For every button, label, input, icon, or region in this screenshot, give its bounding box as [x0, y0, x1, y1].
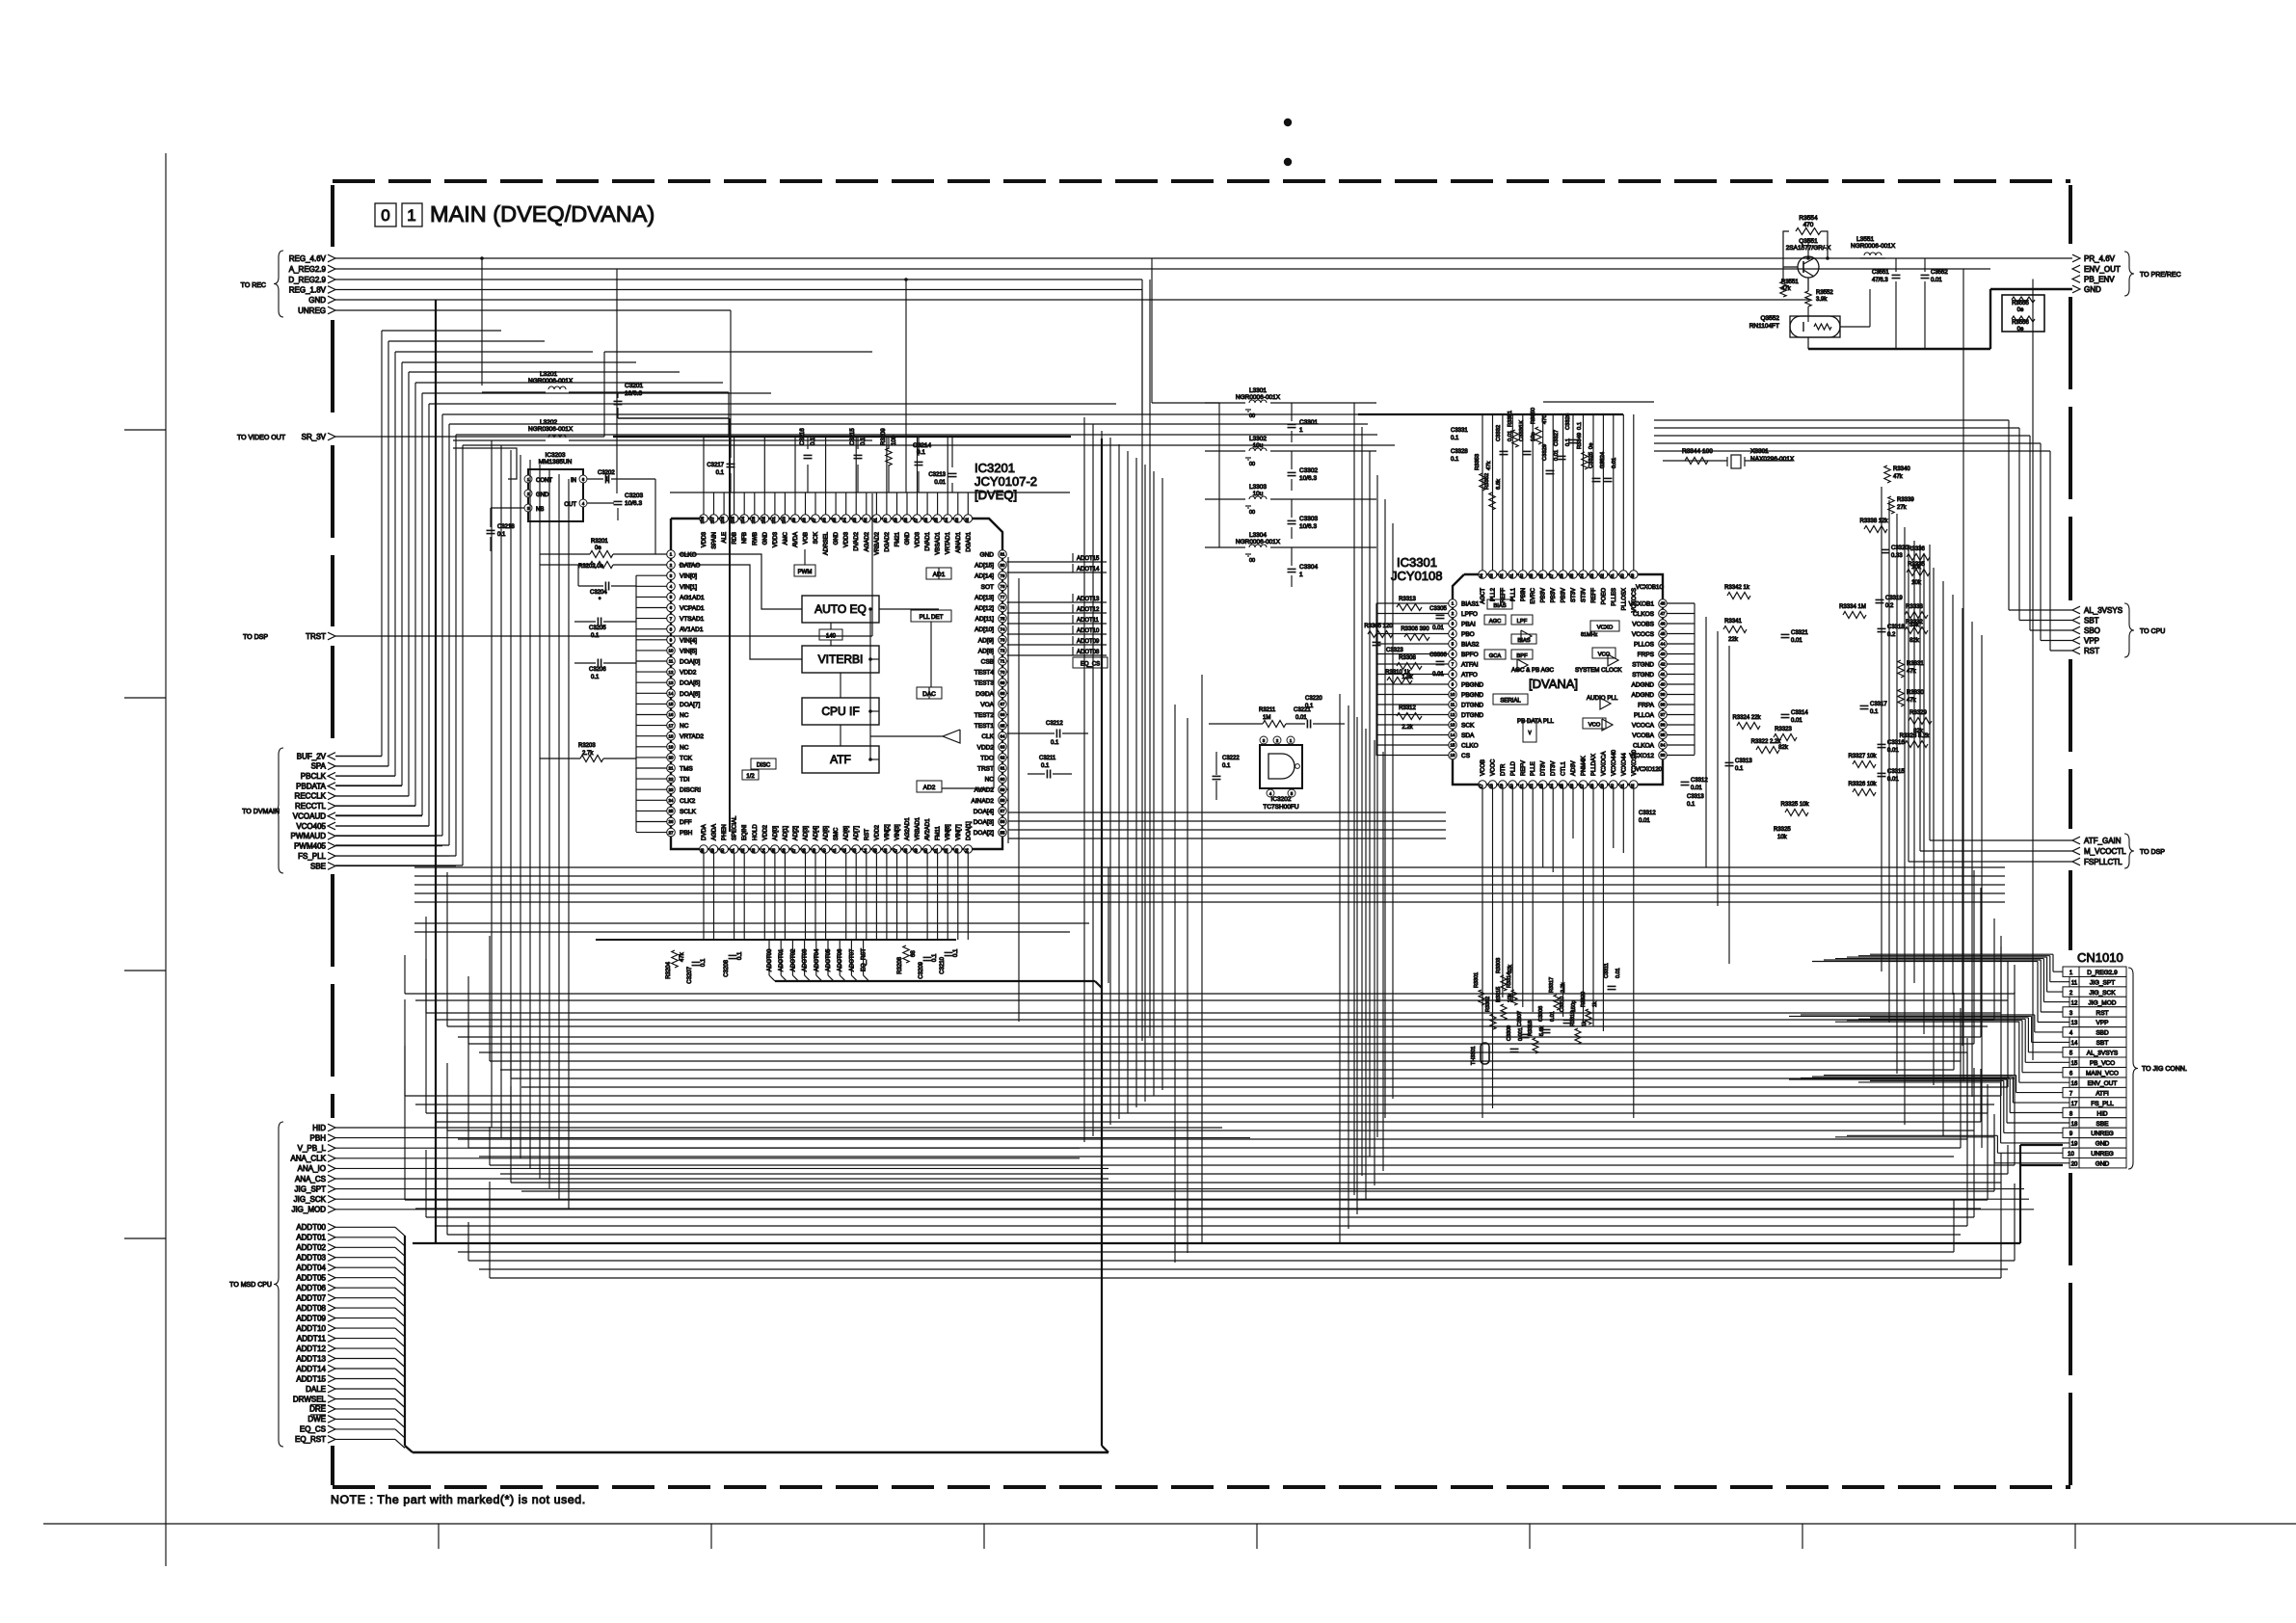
- svg-text:TO PRE/REC: TO PRE/REC: [2140, 272, 2181, 279]
- svg-text:23: 23: [669, 787, 674, 792]
- svg-text:10k: 10k: [1777, 835, 1788, 840]
- svg-text:11: 11: [1451, 703, 1455, 707]
- svg-text:2.2k: 2.2k: [1402, 725, 1413, 731]
- svg-text:62: 62: [1001, 756, 1005, 760]
- svg-text:FS_PLL: FS_PLL: [298, 852, 326, 861]
- svg-text:ADDT13: ADDT13: [296, 1354, 326, 1363]
- svg-text:85: 85: [934, 518, 939, 522]
- svg-text:SBT: SBT: [2084, 616, 2099, 625]
- svg-text:DOA[2]: DOA[2]: [974, 830, 995, 837]
- svg-text:58: 58: [1001, 798, 1005, 803]
- svg-text:36: 36: [1661, 723, 1666, 728]
- svg-text:BUF_2V: BUF_2V: [297, 752, 327, 760]
- svg-text:ADOT04: ADOT04: [814, 948, 820, 971]
- svg-text:VRBAD1: VRBAD1: [916, 816, 921, 840]
- svg-text:00: 00: [1249, 462, 1255, 467]
- svg-text:C3309: C3309: [1507, 1025, 1512, 1041]
- svg-text:0e: 0e: [1589, 443, 1594, 449]
- svg-text:84: 84: [944, 518, 948, 522]
- svg-text:REFV: REFV: [1521, 760, 1527, 776]
- svg-text:C3315: C3315: [1887, 769, 1905, 775]
- svg-text:46: 46: [883, 848, 888, 853]
- svg-text:100: 100: [781, 516, 786, 523]
- svg-text:1: 1: [1299, 427, 1303, 434]
- svg-text:16: 16: [669, 712, 674, 717]
- svg-text:21: 21: [669, 766, 674, 771]
- svg-text:AG1AD1: AG1AD1: [680, 595, 705, 601]
- svg-text:75: 75: [1001, 616, 1005, 621]
- svg-text:R3352: R3352: [1484, 473, 1490, 490]
- svg-text:JIG_SPT: JIG_SPT: [2090, 980, 2115, 987]
- svg-text:VIN[3]: VIN[3]: [895, 824, 901, 840]
- svg-text:R3339: R3339: [1897, 497, 1914, 503]
- svg-text:DVAD2: DVAD2: [854, 531, 860, 550]
- svg-text:10/6.3: 10/6.3: [625, 500, 642, 507]
- svg-text:PWMAUD: PWMAUD: [291, 832, 327, 840]
- svg-text:39: 39: [812, 848, 816, 853]
- svg-text:BIAS: BIAS: [1493, 603, 1506, 609]
- svg-text:R3317: R3317: [1549, 977, 1555, 993]
- svg-text:TH3301: TH3301: [1471, 1046, 1477, 1065]
- svg-text:23: 23: [1539, 784, 1544, 788]
- svg-text:0e: 0e: [2017, 327, 2024, 333]
- svg-text:32: 32: [1630, 784, 1635, 788]
- svg-text:27: 27: [669, 830, 674, 835]
- svg-text:54: 54: [964, 848, 969, 853]
- svg-text:NGR0006-001X: NGR0006-001X: [528, 378, 574, 385]
- svg-text:C3330: C3330: [1519, 425, 1525, 441]
- svg-text:SPECIAL: SPECIAL: [733, 815, 738, 840]
- svg-text:C3307: C3307: [1517, 1011, 1523, 1026]
- svg-text:0.1: 0.1: [1451, 457, 1459, 463]
- svg-text:92: 92: [863, 518, 868, 522]
- svg-text:SPAIN: SPAIN: [712, 532, 718, 549]
- svg-text:0.1: 0.1: [1687, 802, 1695, 808]
- svg-text:VCXO440: VCXO440: [1612, 749, 1617, 776]
- svg-text:RST: RST: [865, 829, 870, 840]
- svg-text:R3351: R3351: [1508, 411, 1513, 427]
- svg-text:PB3V: PB3V: [1562, 588, 1567, 602]
- svg-text:TEST1: TEST1: [974, 723, 995, 730]
- svg-text:20: 20: [1508, 784, 1513, 788]
- svg-text:UNREG: UNREG: [298, 306, 326, 315]
- svg-text:ENV_OUT: ENV_OUT: [2084, 265, 2121, 274]
- svg-text:FRPS: FRPS: [1638, 652, 1655, 658]
- svg-text:0.1: 0.1: [1577, 422, 1583, 430]
- svg-text:C3208: C3208: [724, 959, 730, 976]
- svg-text:15: 15: [1451, 743, 1455, 748]
- svg-text:VOB: VOB: [804, 532, 810, 545]
- svg-text:PBCLK: PBCLK: [301, 772, 327, 781]
- svg-text:35: 35: [771, 848, 776, 853]
- svg-text:RST: RST: [2084, 647, 2099, 655]
- svg-text:AD[1]: AD[1]: [783, 826, 788, 840]
- svg-text:TO VIDEO OUT: TO VIDEO OUT: [237, 435, 286, 441]
- svg-text:ANA_CS: ANA_CS: [295, 1175, 326, 1184]
- svg-text:79: 79: [1001, 573, 1005, 578]
- svg-text:67: 67: [1001, 702, 1005, 706]
- svg-text:VCXO44: VCXO44: [1621, 753, 1627, 776]
- svg-text:2.2k: 2.2k: [1561, 982, 1566, 993]
- svg-text:L3301: L3301: [1249, 387, 1267, 394]
- svg-text:VDD2: VDD2: [874, 824, 880, 840]
- svg-text:DTGND: DTGND: [1461, 703, 1483, 709]
- svg-text:C3218: C3218: [497, 524, 515, 530]
- svg-text:R3336: R3336: [1908, 546, 1925, 552]
- svg-text:SCK: SCK: [1461, 723, 1475, 730]
- svg-text:C3317: C3317: [1870, 702, 1887, 707]
- svg-text:47k: 47k: [1486, 462, 1492, 470]
- svg-text:DVAD1: DVAD1: [925, 531, 931, 550]
- svg-text:PBIN: PBIN: [1521, 588, 1527, 601]
- svg-text:ADDT00: ADDT00: [296, 1223, 326, 1232]
- svg-text:TEST2: TEST2: [974, 712, 995, 719]
- svg-text:SMC: SMC: [834, 827, 840, 840]
- svg-text:33: 33: [751, 848, 756, 853]
- svg-text:JCY0107-2: JCY0107-2: [974, 474, 1037, 489]
- svg-text:0.01: 0.01: [934, 480, 946, 486]
- svg-text:ATF: ATF: [830, 753, 851, 766]
- svg-text:C3552: C3552: [1931, 270, 1948, 276]
- svg-text:87: 87: [914, 518, 919, 522]
- svg-text:TEST3: TEST3: [974, 680, 995, 687]
- svg-text:R3320: R3320: [1581, 992, 1587, 1007]
- svg-text:C3331: C3331: [1451, 428, 1468, 434]
- svg-text:Q3552: Q3552: [1760, 315, 1779, 322]
- svg-text:R3334 1M: R3334 1M: [1839, 604, 1866, 610]
- svg-text:63: 63: [1001, 745, 1005, 750]
- svg-text:TO REC: TO REC: [241, 282, 266, 289]
- svg-text:R3323: R3323: [1775, 727, 1792, 732]
- svg-text:41: 41: [1661, 672, 1666, 677]
- svg-text:59: 59: [1001, 787, 1005, 792]
- svg-text:60: 60: [1001, 777, 1005, 782]
- svg-text:PBGND: PBGND: [1461, 682, 1483, 689]
- svg-text:JCY0108: JCY0108: [1391, 569, 1442, 583]
- svg-text:FRPA: FRPA: [1638, 703, 1655, 709]
- svg-text:ADDT08: ADDT08: [296, 1304, 326, 1313]
- svg-text:ADOT00: ADOT00: [767, 948, 773, 971]
- svg-text:R3314: R3314: [1507, 972, 1512, 988]
- svg-text:12: 12: [669, 670, 674, 675]
- svg-text:ATFAI: ATFAI: [1461, 662, 1479, 669]
- svg-text:GND: GND: [536, 492, 549, 498]
- svg-text:100: 100: [892, 435, 897, 445]
- svg-text:CN1010: CN1010: [2077, 950, 2123, 965]
- svg-text:28: 28: [700, 848, 705, 853]
- svg-text:DOA[7]: DOA[7]: [680, 702, 701, 708]
- svg-text:C3215: C3215: [850, 428, 856, 445]
- svg-text:VCO405: VCO405: [296, 822, 326, 831]
- svg-text:45: 45: [1661, 631, 1666, 636]
- svg-text:0.01: 0.01: [1550, 1011, 1556, 1022]
- svg-text:PNM4K: PNM4K: [1582, 756, 1588, 776]
- svg-text:29: 29: [710, 848, 715, 853]
- svg-text:56: 56: [1001, 819, 1005, 824]
- svg-text:R3325: R3325: [1774, 827, 1791, 833]
- svg-text:C3326: C3326: [1565, 413, 1571, 430]
- svg-text:EVRC: EVRC: [1531, 587, 1536, 603]
- svg-text:NC: NC: [680, 723, 689, 730]
- svg-text:MAIN (DVEQ/DVANA): MAIN (DVEQ/DVANA): [430, 201, 654, 226]
- svg-text:SBO: SBO: [2084, 626, 2100, 635]
- svg-text:C3211: C3211: [1039, 756, 1056, 761]
- svg-text:ADDT15: ADDT15: [296, 1374, 326, 1383]
- svg-text:C3312: C3312: [1639, 811, 1656, 816]
- svg-text:PLLDAX: PLLDAX: [1591, 754, 1597, 776]
- svg-text:C3312: C3312: [1691, 778, 1708, 784]
- svg-text:C3205: C3205: [589, 625, 606, 631]
- svg-text:18: 18: [1489, 784, 1494, 788]
- svg-text:R3310 1k: R3310 1k: [1385, 670, 1411, 676]
- svg-text:56: 56: [1560, 573, 1564, 578]
- svg-text:GND: GND: [762, 531, 768, 545]
- svg-text:ADOT09: ADOT09: [1077, 639, 1100, 645]
- svg-text:C3220: C3220: [1305, 696, 1322, 702]
- svg-text:ADOT08: ADOT08: [1077, 650, 1100, 655]
- svg-text:47: 47: [894, 848, 898, 853]
- svg-text:78: 78: [1001, 584, 1005, 589]
- svg-text:00: 00: [1249, 558, 1255, 564]
- svg-text:ADOT06: ADOT06: [838, 948, 843, 971]
- svg-text:18: 18: [669, 733, 674, 738]
- svg-text:DRE: DRE: [309, 1405, 326, 1414]
- svg-text:3.9k: 3.9k: [1816, 297, 1828, 303]
- svg-text:0.01: 0.01: [1691, 785, 1702, 791]
- svg-text:EQ_CS: EQ_CS: [1081, 662, 1100, 668]
- svg-text:34: 34: [761, 848, 765, 853]
- svg-text:AD[0]: AD[0]: [773, 826, 779, 840]
- svg-text:L3302: L3302: [1249, 436, 1267, 442]
- svg-text:DGAD1: DGAD1: [966, 531, 972, 551]
- svg-text:AMC: AMC: [783, 531, 788, 545]
- svg-text:AV2AD1: AV2AD1: [925, 818, 931, 840]
- svg-text:83: 83: [954, 518, 959, 522]
- svg-text:SBE: SBE: [310, 862, 326, 870]
- svg-text:60: 60: [1519, 573, 1524, 578]
- svg-text:86: 86: [923, 518, 928, 522]
- svg-text:C3324: C3324: [1600, 451, 1606, 468]
- svg-text:TO DVMAIN: TO DVMAIN: [242, 809, 280, 815]
- svg-text:C3304: C3304: [1299, 564, 1319, 571]
- svg-text:24: 24: [669, 798, 674, 803]
- svg-text:AGDA: AGDA: [712, 824, 718, 840]
- svg-text:68: 68: [1001, 691, 1005, 696]
- svg-text:MM1385UN: MM1385UN: [539, 459, 573, 466]
- svg-text:40: 40: [1661, 682, 1666, 687]
- svg-text:C3313: C3313: [1735, 758, 1752, 764]
- svg-text:29: 29: [1599, 784, 1604, 788]
- svg-text:95: 95: [832, 518, 837, 522]
- svg-text:R3201: R3201: [591, 539, 608, 545]
- svg-text:LPF: LPF: [1517, 619, 1528, 625]
- svg-text:C3209: C3209: [919, 961, 924, 978]
- svg-text:PB3V: PB3V: [1551, 588, 1557, 602]
- svg-text:GND: GND: [834, 531, 840, 545]
- svg-text:GND: GND: [308, 296, 326, 305]
- svg-text:DT3V: DT3V: [1551, 761, 1557, 776]
- svg-text:IC3301: IC3301: [1397, 555, 1437, 570]
- svg-text:CLKO: CLKO: [680, 552, 697, 559]
- svg-text:VDD2: VDD2: [762, 824, 768, 840]
- svg-text:REG_4.6V: REG_4.6V: [289, 254, 327, 263]
- svg-text:SR_3V: SR_3V: [302, 433, 327, 441]
- svg-text:D_REG2.9: D_REG2.9: [288, 276, 326, 284]
- svg-text:LPFO: LPFO: [1461, 611, 1478, 618]
- svg-text:27: 27: [1580, 784, 1585, 788]
- svg-text:CLK: CLK: [981, 733, 994, 740]
- svg-text:13: 13: [1451, 723, 1455, 728]
- svg-text:42: 42: [842, 848, 847, 853]
- svg-text:AL_3VSYS: AL_3VSYS: [2084, 606, 2122, 615]
- svg-text:ENV_OUT: ENV_OUT: [2088, 1080, 2118, 1087]
- svg-text:SOT: SOT: [981, 584, 994, 591]
- svg-text:M_VCOCTL: M_VCOCTL: [2084, 847, 2126, 856]
- svg-text:53: 53: [954, 848, 959, 853]
- svg-text:14: 14: [669, 691, 674, 696]
- svg-text:RDB: RDB: [733, 532, 738, 545]
- svg-text:0.1: 0.1: [591, 675, 600, 680]
- svg-text:GCA: GCA: [1489, 653, 1502, 659]
- svg-text:21: 21: [1519, 784, 1524, 788]
- svg-text:R3340: R3340: [1893, 466, 1910, 472]
- svg-text:TRST: TRST: [977, 766, 994, 773]
- svg-text:SCLK: SCLK: [680, 809, 697, 815]
- svg-text:PR_4.6V: PR_4.6V: [2084, 254, 2116, 263]
- svg-text:47k: 47k: [1893, 474, 1904, 480]
- svg-text:ATF_GAIN: ATF_GAIN: [2084, 837, 2122, 845]
- svg-text:VIN[2]: VIN[2]: [885, 824, 891, 840]
- svg-text:0.01: 0.01: [1508, 431, 1513, 441]
- svg-text:ADDT06: ADDT06: [296, 1284, 326, 1292]
- svg-text:99: 99: [791, 518, 796, 522]
- svg-text:51: 51: [1610, 573, 1615, 578]
- svg-text:0.1: 0.1: [716, 470, 725, 476]
- svg-text:ADDT02: ADDT02: [296, 1243, 326, 1252]
- svg-text:14: 14: [1451, 732, 1455, 737]
- svg-text:50: 50: [1619, 573, 1624, 578]
- svg-text:JIG_SCK: JIG_SCK: [2089, 990, 2116, 997]
- svg-text:DRWSEL: DRWSEL: [293, 1395, 327, 1403]
- svg-text:POEO: POEO: [1601, 588, 1607, 605]
- svg-text:ADOT13: ADOT13: [1077, 597, 1100, 602]
- svg-text:VOA: VOA: [980, 702, 994, 708]
- svg-text:61: 61: [1001, 766, 1005, 771]
- svg-text:ANA_IO: ANA_IO: [298, 1164, 326, 1173]
- svg-text:DOA[6]: DOA[6]: [680, 691, 701, 698]
- svg-text:AD[13]: AD[13]: [974, 595, 994, 601]
- svg-text:R3329: R3329: [1909, 710, 1927, 716]
- svg-text:REFF: REFF: [1501, 588, 1507, 603]
- svg-text:FS_PLL: FS_PLL: [2091, 1101, 2114, 1107]
- svg-text:DT3V: DT3V: [1541, 761, 1547, 776]
- svg-text:C3308: C3308: [1538, 1006, 1544, 1022]
- svg-text:11: 11: [669, 659, 674, 664]
- svg-text:STGND: STGND: [1632, 662, 1654, 669]
- svg-text:20: 20: [2071, 1162, 2078, 1168]
- svg-text:C3311: C3311: [1604, 963, 1610, 978]
- svg-text:R3209: R3209: [881, 428, 887, 445]
- svg-text:C3329: C3329: [1542, 444, 1548, 461]
- svg-text:91: 91: [872, 518, 877, 522]
- svg-text:D_REG2.9: D_REG2.9: [2087, 970, 2118, 976]
- svg-text:1: 1: [407, 206, 415, 225]
- svg-text:PHEN: PHEN: [722, 824, 728, 840]
- svg-text:90: 90: [883, 518, 888, 522]
- svg-text:VTSAD1: VTSAD1: [680, 616, 705, 623]
- svg-text:C3306: C3306: [1429, 652, 1447, 658]
- svg-text:0e: 0e: [595, 545, 601, 551]
- svg-text:A_REG2.9: A_REG2.9: [289, 265, 327, 274]
- svg-text:ADOT10: ADOT10: [1077, 628, 1100, 634]
- svg-text:0.1: 0.1: [1735, 766, 1744, 772]
- svg-text:PBDATA: PBDATA: [296, 782, 326, 790]
- svg-text:VDD2: VDD2: [680, 670, 697, 677]
- svg-text:C3210: C3210: [940, 956, 946, 973]
- svg-text:15: 15: [669, 702, 674, 706]
- svg-text:19: 19: [2071, 1142, 2078, 1148]
- svg-text:SCK: SCK: [814, 532, 819, 544]
- svg-text:ADOT14: ADOT14: [1077, 567, 1100, 572]
- svg-text:VCPAD1: VCPAD1: [680, 605, 705, 612]
- svg-text:TEST4: TEST4: [974, 670, 995, 677]
- svg-text:DOA[3]: DOA[3]: [974, 819, 995, 826]
- svg-text:ADDT07: ADDT07: [296, 1294, 326, 1303]
- svg-text:GND: GND: [980, 552, 995, 559]
- svg-text:VDD3: VDD3: [916, 531, 921, 547]
- svg-text:ADDT05: ADDT05: [296, 1274, 326, 1283]
- svg-text:10: 10: [1451, 692, 1455, 697]
- svg-text:48: 48: [1661, 601, 1666, 606]
- svg-text:ADDT14: ADDT14: [296, 1365, 326, 1373]
- svg-text:0: 0: [381, 206, 389, 225]
- svg-text:R3330: R3330: [1907, 690, 1924, 696]
- svg-text:R3319: R3319: [1570, 1011, 1576, 1026]
- svg-text:AD3V: AD3V: [1571, 760, 1577, 776]
- svg-text:R3555: R3555: [2012, 301, 2029, 306]
- svg-text:CPU IF: CPU IF: [821, 705, 859, 718]
- svg-text:VCOB: VCOB: [1481, 759, 1486, 776]
- svg-text:C3310: C3310: [1560, 997, 1565, 1012]
- svg-text:CLKO: CLKO: [1461, 743, 1479, 750]
- svg-text:ST3V: ST3V: [1582, 588, 1588, 602]
- svg-text:JIG_MOD: JIG_MOD: [2089, 999, 2117, 1006]
- svg-text:82k: 82k: [1508, 965, 1513, 973]
- svg-text:PBO: PBO: [1461, 631, 1475, 638]
- svg-text:37: 37: [791, 848, 796, 853]
- svg-text:15: 15: [2071, 1061, 2078, 1067]
- svg-text:AD[14]: AD[14]: [974, 573, 994, 580]
- svg-text:98: 98: [802, 518, 807, 522]
- svg-text:MAIN_VCO: MAIN_VCO: [2086, 1071, 2119, 1078]
- svg-text:R3312: R3312: [1399, 705, 1416, 711]
- svg-text:37: 37: [1661, 712, 1666, 717]
- svg-text:SPA: SPA: [311, 762, 327, 771]
- svg-text:103: 103: [751, 516, 756, 523]
- svg-text:VCOCS: VCOCS: [1632, 631, 1655, 638]
- svg-text:NFB: NFB: [742, 532, 748, 544]
- svg-text:EQINI: EQINI: [742, 824, 748, 840]
- svg-text:PB_VCO: PB_VCO: [2090, 1060, 2115, 1067]
- svg-text:C3319: C3319: [1885, 596, 1903, 601]
- svg-text:DISCRI: DISCRI: [680, 787, 701, 794]
- svg-text:C3217: C3217: [707, 463, 724, 468]
- svg-text:GND: GND: [2096, 1141, 2110, 1148]
- svg-text:R3308: R3308: [1399, 655, 1416, 661]
- svg-text:TO MSD CPU: TO MSD CPU: [229, 1282, 272, 1289]
- svg-text:DGDA: DGDA: [975, 691, 994, 698]
- svg-text:C3206: C3206: [589, 667, 606, 673]
